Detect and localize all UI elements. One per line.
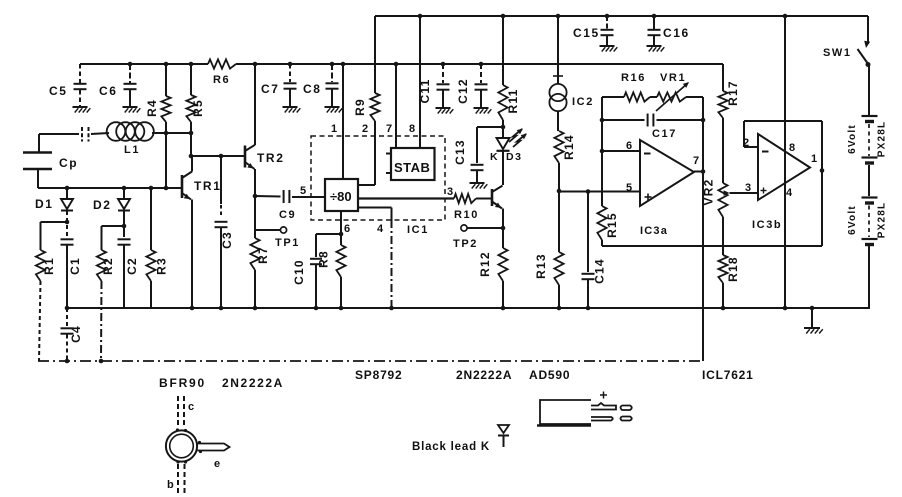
svg-text:4: 4	[377, 223, 385, 235]
svg-text:K: K	[490, 151, 499, 163]
inductor L1	[107, 122, 126, 141]
potentiometer VR1	[650, 96, 657, 98]
capacitor C10	[316, 233, 341, 235]
resistor R4	[165, 64, 167, 96]
svg-text:8: 8	[409, 123, 417, 135]
resistor R13	[558, 191, 560, 252]
svg-text:BFR90: BFR90	[159, 376, 206, 390]
svg-text:TR1: TR1	[194, 179, 221, 193]
svg-text:2N2222A: 2N2222A	[222, 376, 284, 390]
svg-text:R7: R7	[256, 246, 270, 264]
node IC1 pin1 at rail	[341, 62, 346, 67]
svg-text:R1: R1	[42, 257, 56, 275]
battery B1 6Volt PX28L	[862, 115, 878, 117]
svg-text:C16: C16	[663, 26, 690, 40]
wire IC3b output right	[821, 121, 823, 246]
svg-text:5: 5	[626, 182, 634, 194]
node C7 at rail	[288, 62, 293, 67]
svg-text:R3: R3	[155, 257, 169, 275]
svg-text:c: c	[188, 401, 196, 413]
node C6 at rail	[128, 62, 133, 67]
wire TR1 base	[38, 187, 182, 189]
LED D3	[497, 138, 510, 149]
diode D1 (varactor)	[66, 188, 68, 199]
transistor TR2 2N2222A	[244, 146, 247, 168]
AD590 package drawing	[540, 400, 591, 424]
wire trimmer to L1	[91, 133, 109, 134]
svg-text:C4: C4	[69, 325, 83, 343]
resistor R8	[336, 245, 345, 277]
resistor R3	[150, 188, 152, 250]
svg-text:D3: D3	[506, 151, 523, 163]
capacitor C9	[255, 195, 281, 198]
svg-text:C3: C3	[220, 231, 234, 249]
wire varactor bias rail (dash-dot)	[38, 360, 703, 362]
wire IC3b feedback top	[744, 120, 822, 122]
svg-text:Cp: Cp	[59, 156, 78, 170]
node R2 bias rail	[99, 359, 104, 364]
svg-text:6Volt: 6Volt	[847, 205, 858, 235]
resistor R12	[498, 248, 507, 281]
wire op-amp supply pin8/pin4	[784, 16, 786, 308]
svg-text:C13: C13	[453, 139, 467, 165]
resistor R10	[454, 194, 476, 203]
node R11 at top rail	[501, 14, 506, 19]
svg-text:R2: R2	[101, 257, 115, 275]
svg-text:R13: R13	[534, 253, 548, 279]
capacitor C15	[606, 16, 608, 29]
node IC1 pin7 at rail	[394, 62, 399, 67]
svg-text:3: 3	[745, 182, 753, 194]
svg-text:4: 4	[786, 187, 794, 199]
svg-text:L1: L1	[124, 144, 140, 156]
wire L1 to node	[152, 132, 166, 134]
capacitor C14	[587, 192, 589, 273]
resistor R17	[722, 64, 724, 91]
wire battery junction	[868, 165, 870, 196]
resistor R11	[502, 16, 504, 85]
capacitor C12	[480, 64, 482, 83]
svg-text:R5: R5	[191, 99, 205, 117]
wire Cp top to trimmer	[39, 133, 79, 135]
svg-text:R16: R16	[621, 72, 646, 84]
svg-text:PX28L: PX28L	[877, 121, 888, 158]
svg-text:ICL7621: ICL7621	[702, 368, 754, 382]
capacitor C5	[79, 64, 81, 83]
wire V1 rail (second supply rail)	[80, 63, 208, 65]
svg-text:R6: R6	[213, 74, 230, 86]
diode D2 (varactor)	[123, 188, 125, 199]
capacitor C7	[289, 64, 291, 82]
svg-text:C11: C11	[418, 79, 432, 104]
svg-text:8: 8	[789, 142, 797, 154]
node R7 ground rail	[253, 306, 258, 311]
D3 emission arrows	[509, 129, 522, 142]
wire R15 to IC3b output	[602, 245, 822, 247]
capacitor C3	[220, 156, 222, 204]
resistor R15	[601, 151, 603, 206]
IC1 STAB block	[391, 148, 435, 180]
resistor R16	[602, 96, 624, 98]
node R3 base wire	[149, 186, 154, 191]
resistor R5	[190, 64, 192, 95]
node R5/TR2 base	[189, 154, 194, 159]
node R1/D1	[65, 220, 70, 225]
transistor TR1 BFR90	[181, 175, 184, 198]
svg-text:7: 7	[386, 123, 394, 135]
svg-text:b: b	[167, 479, 175, 491]
wire ground rail	[65, 307, 870, 309]
svg-text:TP1: TP1	[275, 237, 300, 249]
node pin6 / C10 / R8	[339, 232, 344, 237]
svg-text:VR1: VR1	[660, 72, 686, 84]
node R12 ground rail	[501, 306, 506, 311]
node R14/R13/+input	[557, 189, 562, 194]
test point TP1	[255, 229, 280, 231]
wire IC1 pin 1	[342, 64, 344, 179]
capacitor C16	[653, 16, 655, 29]
svg-text:2: 2	[362, 123, 370, 135]
svg-text:R15: R15	[605, 212, 619, 238]
svg-text:2N2222A: 2N2222A	[456, 368, 512, 382]
node supply at ground rail	[783, 306, 788, 311]
node C10 ground rail	[314, 306, 319, 311]
svg-text:C8: C8	[303, 82, 322, 96]
capacitor C11	[442, 64, 444, 83]
svg-text:1: 1	[331, 123, 339, 135]
resistor R9 (pin 2 to +V)	[374, 16, 376, 93]
node R5 at rail	[189, 62, 194, 67]
svg-text:R12: R12	[478, 251, 492, 277]
wire IC1 pin 4 to ground	[358, 207, 392, 209]
node R18 ground rail	[721, 306, 726, 311]
op-amp IC3a	[640, 140, 694, 206]
node C17/R15 branch	[600, 118, 605, 123]
VR2 wiper arrow	[724, 190, 730, 195]
wire TR2 base	[191, 155, 245, 157]
node L1/R5	[189, 131, 194, 136]
node pin4 ground rail	[389, 306, 394, 311]
node pin6 branch	[600, 149, 605, 154]
svg-text:5: 5	[300, 185, 308, 197]
svg-text:TR2: TR2	[257, 151, 284, 165]
capacitor trimmer (series, dashed)	[81, 127, 83, 142]
capacitor C8	[331, 64, 333, 82]
wire +V top rail	[375, 15, 868, 17]
node IC3a output	[701, 169, 706, 174]
svg-text:C10: C10	[292, 259, 306, 285]
capacitor C4	[66, 308, 68, 326]
resistor R1	[41, 221, 68, 223]
svg-text:R10: R10	[454, 209, 479, 221]
switch SW1	[867, 16, 869, 44]
current source IC2 AD590	[557, 16, 559, 84]
node IC3b output	[820, 168, 825, 173]
node R4 at rail	[164, 62, 169, 67]
wire battery to ground rail	[868, 246, 870, 308]
node TR2 collector at rail	[253, 62, 258, 67]
svg-text:R11: R11	[506, 89, 520, 114]
svg-text:IC2: IC2	[572, 96, 594, 108]
resistor R14	[554, 131, 563, 163]
svg-text:D2: D2	[93, 198, 112, 212]
node C14 ground rail	[586, 306, 591, 311]
ground symbol main	[811, 308, 813, 327]
svg-text:D1: D1	[35, 197, 54, 211]
wire IC1 pin 6	[340, 211, 342, 245]
svg-text:e: e	[214, 458, 222, 470]
node R11/D3/C13	[501, 125, 506, 130]
svg-text:IC1: IC1	[407, 224, 429, 236]
svg-text:IC3a: IC3a	[640, 225, 668, 237]
potentiometer VR2	[718, 183, 727, 217]
node R13 ground rail	[557, 306, 562, 311]
svg-text:C6: C6	[99, 84, 118, 98]
wire feedback loop left	[601, 97, 603, 120]
svg-text:÷80: ÷80	[330, 189, 352, 204]
svg-text:R18: R18	[726, 256, 740, 282]
node R4 base wire	[164, 186, 169, 191]
diode drawing black lead	[498, 425, 509, 433]
svg-text:C17: C17	[652, 128, 677, 140]
svg-text:SW1: SW1	[823, 47, 852, 59]
wire IC3a non-inverting input	[559, 191, 640, 193]
svg-text:C14: C14	[593, 258, 607, 284]
svg-text:6: 6	[344, 223, 352, 235]
svg-text:6Volt: 6Volt	[847, 124, 858, 154]
svg-text:VR2: VR2	[702, 179, 716, 206]
svg-text:IC3b: IC3b	[752, 219, 782, 231]
node pin8 at top rail	[418, 14, 423, 19]
resistor R18	[718, 255, 727, 283]
svg-text:R4: R4	[145, 99, 159, 117]
node R8 ground rail	[339, 306, 344, 311]
svg-text:1: 1	[811, 153, 819, 165]
node C3 ground rail	[219, 306, 224, 311]
node C11 at rail	[441, 62, 446, 67]
capacitor C6	[129, 64, 131, 83]
node L1/R4	[164, 131, 169, 136]
svg-text:7: 7	[693, 155, 701, 167]
node D2 base wire	[122, 186, 127, 191]
node C4 bias rail	[65, 359, 70, 364]
op-amp IC3b	[758, 134, 810, 200]
wire IC1 pin 7	[395, 64, 397, 148]
resistor R7	[254, 231, 256, 238]
svg-text:C7: C7	[261, 82, 280, 96]
svg-text:R9: R9	[353, 98, 367, 116]
battery B2 6Volt PX28L	[862, 196, 878, 198]
wire IC1 pin 3 output	[358, 197, 454, 199]
wire pin7 to bias rail	[702, 120, 704, 361]
wire SW1 to battery	[868, 64, 870, 115]
svg-text:STAB: STAB	[394, 160, 430, 175]
svg-text:C12: C12	[456, 78, 470, 104]
wire IC3a output	[694, 171, 703, 173]
svg-text:Black lead K: Black lead K	[412, 441, 490, 453]
node C17 right	[701, 118, 706, 123]
node C3 at base wire	[219, 154, 224, 159]
svg-text:3: 3	[447, 186, 455, 198]
svg-text:SP8792: SP8792	[355, 368, 403, 382]
wire feedback loop right	[702, 97, 704, 120]
svg-text:PX28L: PX28L	[877, 202, 888, 239]
svg-text:C9: C9	[279, 209, 296, 221]
node TR2 emitter / C9	[253, 194, 258, 199]
STAB left pin stubs	[386, 153, 391, 155]
svg-text:C15: C15	[573, 26, 600, 40]
svg-text:R14: R14	[562, 134, 576, 160]
node C8 at rail	[330, 62, 335, 67]
capacitor C2	[123, 211, 125, 237]
svg-text:6: 6	[626, 140, 634, 152]
wire emitter to R7	[254, 196, 256, 231]
svg-text:TP2: TP2	[453, 238, 478, 250]
node C14 tap	[586, 189, 591, 194]
svg-text:C1: C1	[68, 257, 82, 275]
BFR90 package drawing	[177, 396, 179, 426]
svg-text:C5: C5	[49, 84, 68, 98]
node IC2 at top rail	[556, 14, 561, 19]
svg-text:AD590: AD590	[529, 368, 570, 382]
node D1 base wire	[65, 186, 70, 191]
capacitor C13 to ground	[477, 126, 503, 128]
node C4 ground rail	[65, 306, 70, 311]
capacitor C17	[602, 119, 645, 121]
node R2/D2	[122, 224, 127, 229]
capacitor C1	[66, 211, 68, 237]
IC1 dashed outline	[311, 136, 445, 220]
svg-text:C2: C2	[125, 257, 139, 275]
test point TP2	[501, 226, 506, 231]
svg-text:R17: R17	[726, 80, 740, 106]
wire IC1 pin 8	[419, 16, 421, 148]
transistor TR3 2N2222A	[491, 189, 494, 206]
IC1 divider block ÷80	[325, 179, 358, 211]
node TR1 emitter at ground rail	[190, 306, 195, 311]
capacitor Cp	[23, 151, 52, 154]
svg-text:2: 2	[743, 137, 751, 149]
node C16 at top rail	[652, 14, 657, 19]
resistor R6	[208, 59, 236, 68]
node supply at top rail	[783, 14, 788, 19]
node C15 at top rail	[605, 14, 610, 19]
resistor R2	[102, 225, 125, 227]
wire IC3a inverting input	[601, 120, 603, 151]
node C12 at rail	[479, 62, 484, 67]
